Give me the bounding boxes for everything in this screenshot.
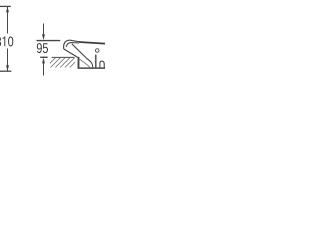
dimension 95: up arrowhead xyxy=(42,58,45,64)
dimension 95: lower arrow tail xyxy=(43,63,45,76)
basin profile: front vertical edge xyxy=(78,57,80,68)
dimension 310: up arrowhead xyxy=(6,7,9,13)
basin profile: inner bowl wall diagonal curving to bottom xyxy=(72,44,93,68)
basin profile: outer bullnose + top rim line xyxy=(64,40,80,49)
dimension 310: vertical dimension line upper segment xyxy=(7,7,9,34)
dimension 310: vertical dimension line lower segment xyxy=(7,49,9,71)
wall/counter section: hatching xyxy=(46,58,80,68)
basin profile: merged rim line to right edge xyxy=(79,42,105,44)
basin profile: outer underside diagonal xyxy=(64,49,78,57)
dimension 95: down arrowhead xyxy=(42,34,45,40)
dimension 95: lower reference tick xyxy=(40,56,47,58)
basin profile: inner foot line xyxy=(80,59,90,67)
drain vertical line xyxy=(95,55,97,69)
dimension 95: value label "95" xyxy=(37,43,48,53)
dimension 95: upper arrow tail xyxy=(43,24,45,36)
dimension 310: down arrowhead xyxy=(6,65,9,71)
basin profile: bottom line xyxy=(78,67,105,69)
dimension 95: upper reference tick xyxy=(37,40,61,42)
dimension 310: value label "310" (partly cut at left edge) xyxy=(0,37,13,47)
tap hole circle xyxy=(95,49,99,53)
dimension 310: bottom extension tick xyxy=(0,70,11,72)
wall/counter section: top surface line xyxy=(52,56,75,58)
right foot arch xyxy=(100,61,104,68)
background xyxy=(0,0,105,105)
dimension 310: top extension tick xyxy=(0,5,11,7)
basin profile: inner bullnose + inner rim line xyxy=(67,43,80,47)
